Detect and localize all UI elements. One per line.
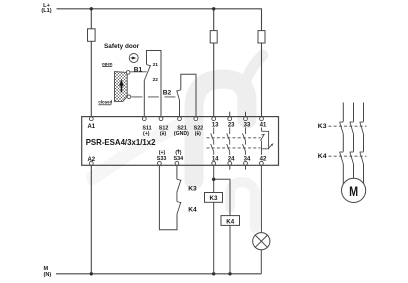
terminal S33	[158, 161, 162, 165]
K4 NC aux contact	[177, 202, 181, 215]
svg-text:24: 24	[228, 157, 235, 163]
B2 contact tick	[176, 90, 181, 91]
svg-text:42: 42	[260, 157, 267, 163]
phase L3 line	[363, 103, 365, 122]
svg-text:23: 23	[228, 122, 235, 128]
door hinge circle top	[126, 71, 130, 75]
terminal 42	[260, 161, 264, 165]
switch B2 housing	[181, 74, 196, 116]
svg-text:(+): (+)	[143, 131, 150, 137]
K4 linkage dashes	[329, 155, 367, 157]
door panel (hatched)	[115, 72, 128, 102]
three phase lines	[343, 103, 363, 185]
K3 linkage dashes	[329, 125, 367, 127]
internal NO contact 23-24	[227, 128, 230, 155]
B1 contact tick	[147, 65, 151, 66]
B2 contact blade	[177, 91, 180, 102]
terminal 41	[260, 117, 264, 121]
svg-text:B2: B2	[163, 89, 172, 96]
stubs above unused terminals 23 33	[230, 112, 246, 170]
svg-text:(: (	[160, 131, 162, 137]
svg-text:41: 41	[260, 122, 267, 128]
svg-text:K3: K3	[210, 195, 218, 202]
svg-text:21: 21	[153, 62, 159, 68]
terminal S12	[159, 117, 163, 121]
junction dot branch	[212, 178, 215, 181]
terminal S21	[178, 117, 182, 121]
phase L1 line	[342, 103, 344, 122]
actuator circle symbol	[129, 54, 138, 63]
coil K4	[221, 216, 240, 226]
svg-text:(L1): (L1)	[41, 8, 51, 14]
svg-text:open: open	[102, 61, 113, 66]
terminal S34	[175, 161, 179, 165]
internal NO contact 33-34	[243, 128, 246, 155]
svg-text:14: 14	[212, 157, 219, 163]
wire lamp to bottom rail	[260, 250, 262, 274]
svg-text:(: (	[195, 131, 197, 137]
door arrow	[119, 79, 124, 92]
B1 contact blade	[144, 65, 150, 80]
coil K3	[205, 193, 223, 203]
svg-text:K4: K4	[226, 218, 234, 225]
wire 14 to bottom rail	[213, 165, 215, 274]
svg-text:S34: S34	[174, 156, 184, 162]
stub 23	[229, 112, 231, 117]
arrowhead on mirror linkage	[271, 143, 274, 146]
svg-text:(GND): (GND)	[174, 131, 189, 137]
stub 33	[245, 112, 247, 117]
svg-text:S33: S33	[157, 156, 167, 162]
feedback loop wire S33	[159, 165, 177, 230]
bottom rail M/N	[56, 273, 261, 275]
svg-text:34: 34	[244, 157, 251, 163]
svg-text:A1: A1	[87, 124, 95, 130]
terminal A1	[89, 117, 93, 121]
svg-text:13: 13	[212, 122, 219, 128]
svg-text:22: 22	[153, 77, 159, 83]
terminal S11	[142, 117, 146, 121]
stub 34	[245, 165, 247, 169]
wire B1 to S11	[143, 81, 145, 117]
contactor K4 main contacts	[340, 152, 364, 164]
svg-text:closed: closed	[98, 100, 112, 105]
terminal 24	[228, 161, 232, 165]
terminal 14	[212, 161, 216, 165]
wire 42 to lamp	[260, 165, 262, 232]
terminal circles bottom row	[89, 161, 263, 165]
wire A1 vertical	[90, 9, 92, 117]
indicator lamp	[253, 233, 270, 250]
internal NO contact 13-14	[211, 128, 214, 155]
watermark swoosh	[93, 55, 263, 228]
svg-text:B1: B1	[134, 67, 143, 74]
terminal circles top row	[89, 117, 263, 121]
phase L2 line	[353, 103, 355, 122]
svg-text:K4: K4	[188, 206, 197, 213]
terminal 34	[244, 161, 248, 165]
wire to terminal 41	[261, 9, 263, 117]
terminal A2	[89, 161, 93, 165]
link door to B2 (dashed)	[131, 96, 177, 98]
stub 24	[229, 165, 231, 169]
svg-text:A2: A2	[87, 157, 95, 163]
junction dots top rail	[90, 7, 232, 275]
wire to terminal 13	[213, 9, 215, 117]
wire A2 vertical	[90, 165, 92, 274]
mechanical linkage dashes row2	[207, 147, 261, 149]
terminal 33	[244, 117, 248, 121]
top rail L+	[57, 8, 263, 10]
svg-text:33: 33	[244, 122, 251, 128]
K3 NC aux contact	[177, 179, 181, 201]
feedback loop wire S34	[176, 165, 178, 179]
terminal 23	[228, 117, 232, 121]
svg-text:Safety door: Safety door	[104, 43, 140, 50]
switch B1 housing	[147, 51, 162, 117]
mechanical linkage dashes row1	[207, 137, 261, 139]
wire B2 to S21	[179, 101, 181, 117]
svg-text:(N): (N)	[44, 272, 52, 278]
svg-text:PSR-ESA4/3x1/1x2: PSR-ESA4/3x1/1x2	[86, 138, 156, 147]
fuse F3	[258, 31, 265, 43]
svg-text:M: M	[349, 184, 358, 199]
terminal S22	[194, 117, 198, 121]
fuse F2	[210, 31, 217, 43]
svg-text:K3: K3	[188, 185, 197, 192]
svg-text:K3: K3	[318, 123, 327, 130]
branch to K4 coil	[214, 179, 230, 273]
link door to B1	[130, 71, 146, 73]
motor M	[342, 178, 366, 202]
relay module PSR-ESA4 body	[82, 117, 279, 166]
contactor K3 main contacts	[340, 122, 364, 134]
svg-text:): )	[199, 131, 201, 137]
internal NC mirror contact 41-42	[260, 128, 272, 155]
fuse F1	[88, 29, 96, 42]
door hinge circle bottom	[127, 95, 131, 99]
svg-text:): )	[164, 131, 166, 137]
terminal 13	[212, 117, 216, 121]
svg-text:K4: K4	[318, 153, 327, 160]
